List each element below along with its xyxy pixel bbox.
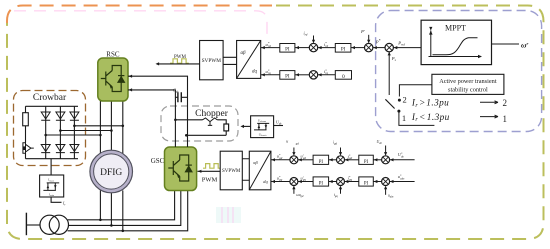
- resistor chopper: [224, 124, 229, 131]
- wire gsc row2 seg2: [298, 181, 313, 183]
- summing junction udc: [382, 156, 390, 164]
- PI box gsc q outer: [313, 177, 329, 186]
- node bus a: [99, 219, 102, 222]
- faint artifact blob: [216, 207, 241, 223]
- diode RSC antiparallel: [118, 77, 124, 83]
- pwm glyph gsc: [203, 164, 221, 169]
- svg-text:i*gq: i*gq: [348, 175, 353, 182]
- wire crowbar output a: [74, 125, 122, 127]
- diode D4: [41, 145, 50, 153]
- DFIG machine: [90, 150, 133, 193]
- wire chopper bottom: [186, 131, 226, 135]
- MPPT box: [421, 20, 491, 64]
- svg-text:i*rq: i*rq: [324, 68, 329, 75]
- svg-text:Cdc: Cdc: [173, 88, 179, 94]
- node crowbar c1: [44, 134, 47, 137]
- svg-text:Pref: Pref: [397, 41, 406, 47]
- svg-text:2: 2: [503, 98, 508, 108]
- diode D3: [70, 112, 79, 120]
- wire gsc row2 seg4: [344, 181, 359, 183]
- diode D1: [41, 112, 50, 120]
- wire gsc row1 seg5: [373, 159, 382, 161]
- svg-text:SVPWM: SVPWM: [222, 169, 241, 174]
- node chopper bottom: [185, 134, 188, 137]
- wire rsc row2 seg1: [261, 74, 280, 76]
- thyristor crowbar switch: [23, 143, 34, 154]
- MPPT axes: [429, 31, 480, 57]
- svg-text:uabc: uabc: [388, 194, 394, 199]
- wire svpwm-dq links gsc: [242, 159, 249, 181]
- svg-text:Crowbar: Crowbar: [33, 93, 67, 103]
- svg-text:PI: PI: [364, 160, 369, 165]
- svg-text:dq: dq: [252, 70, 258, 75]
- wire gsc gate: [198, 170, 221, 172]
- wire Pref: [393, 47, 421, 49]
- dq to alphabeta box rsc: [237, 41, 261, 79]
- svg-text:Ps: Ps: [391, 56, 397, 62]
- wire gsc row2 seg5: [373, 181, 382, 183]
- orange dashed border top-left: [7, 6, 272, 24]
- svg-text:0: 0: [342, 74, 345, 80]
- svg-text:ird: ird: [304, 31, 308, 37]
- IGBT RSC: [101, 71, 112, 87]
- svg-text:PI: PI: [319, 160, 324, 165]
- diode D5: [56, 145, 65, 153]
- zero reference box: [335, 71, 351, 80]
- summing junction igq: [337, 178, 345, 186]
- capacitor Cdc plates: [178, 92, 181, 102]
- PI box rsc d outer: [280, 44, 295, 53]
- wire stator bus a: [68, 191, 175, 220]
- chopper dashed border: [161, 106, 238, 141]
- IGBT GSC: [168, 160, 179, 176]
- diode D6: [70, 145, 79, 153]
- svg-text:GSC: GSC: [151, 157, 165, 165]
- wire grid lead: [26, 224, 40, 226]
- svg-text:P*: P*: [375, 39, 381, 44]
- summing junction Pref: [385, 43, 393, 51]
- pwm glyph rsc: [170, 59, 189, 63]
- hysteresis glyph crowbar: [43, 183, 59, 191]
- crowbar dashed border: [14, 91, 86, 166]
- svg-text:αβ: αβ: [240, 51, 246, 56]
- PI box gsc d inner: [359, 155, 374, 164]
- svg-text:u*rq: u*rq: [266, 68, 272, 75]
- svg-text:PI: PI: [285, 75, 290, 80]
- wire rsc gate: [159, 63, 200, 65]
- svg-text:Chopper: Chopper: [195, 109, 229, 119]
- node crowbar a1: [73, 125, 76, 128]
- summing junction rsc irq: [309, 71, 317, 79]
- wire DC rail minus: [128, 90, 175, 147]
- wire wLigd input: [293, 188, 295, 194]
- svg-text:i*rd: i*rd: [324, 41, 329, 48]
- PI box gsc q inner: [359, 177, 374, 186]
- svg-text:ωugd: ωugd: [296, 193, 304, 198]
- wire svpwm-dq links rsc: [223, 57, 237, 64]
- wire rsc row2 seg2: [295, 74, 310, 76]
- crowbar top rail: [26, 105, 79, 107]
- PI box gsc d outer: [313, 155, 329, 164]
- wire crowbar left branch: [25, 106, 27, 158]
- svg-text:ωr: ωr: [521, 41, 528, 50]
- svg-text:Udc: Udc: [377, 140, 383, 145]
- svg-text:U*dc: U*dc: [398, 152, 405, 159]
- MPPT curve: [433, 38, 478, 55]
- chopper IGBT: [203, 118, 218, 125]
- capacitor Cdc leads: [175, 96, 187, 98]
- pink dashed inner border: [14, 11, 267, 40]
- svg-text:u*rd: u*rd: [266, 41, 272, 48]
- svg-text:Active power transient: Active power transient: [439, 78, 497, 85]
- wire u*abc ref: [389, 181, 414, 183]
- node rotor a: [122, 125, 125, 128]
- switch arm: [385, 99, 394, 108]
- wire chopper top: [175, 120, 226, 124]
- wire gsc row2 seg3: [329, 181, 337, 183]
- converter RSC: [98, 58, 128, 101]
- svg-text:PI: PI: [319, 182, 324, 187]
- grid bar: [25, 213, 27, 236]
- svg-text:stability control: stability control: [448, 86, 488, 93]
- svg-text:1: 1: [503, 114, 508, 124]
- svg-text:2: 2: [403, 95, 407, 105]
- wire stator bus b: [69, 191, 181, 226]
- svg-text:igq: igq: [334, 193, 339, 198]
- arrow DC plus into RSC: [129, 75, 133, 78]
- svg-text:SVPWM: SVPWM: [202, 58, 222, 64]
- SVPWM box gsc: [220, 151, 242, 190]
- summing junction rsc ird: [309, 43, 317, 51]
- dq to alphabeta box gsc: [249, 151, 271, 190]
- node switch 1: [397, 110, 400, 113]
- svg-text:MPPT: MPPT: [445, 24, 466, 33]
- wire Udc ref: [389, 159, 414, 161]
- svg-text:u*gq: u*gq: [277, 175, 283, 182]
- wire gsc row1 seg2: [298, 159, 313, 161]
- svg-text:PI: PI: [364, 182, 369, 187]
- node crowbar b1: [59, 129, 62, 132]
- svg-text:gd: gd: [296, 141, 300, 145]
- wire P prime input: [368, 35, 370, 42]
- wire switch 1 out: [399, 113, 435, 126]
- wire ugd input: [293, 148, 295, 154]
- svg-text:Ir<1.3pu: Ir<1.3pu: [411, 113, 450, 123]
- wire crowbar trigger: [50, 159, 52, 175]
- svg-text:Ir: Ir: [62, 201, 66, 207]
- summing junction ugq ff: [290, 178, 298, 186]
- wire trigger output: [51, 197, 61, 202]
- wire crowbar leg 3: [73, 106, 75, 158]
- wire DFIG rotor leads: [100, 101, 122, 154]
- wire rsc row1 seg2: [295, 47, 310, 49]
- wire stability to switch: [399, 85, 432, 97]
- wire rsc row1 seg1: [261, 47, 280, 49]
- wire Udc sense: [274, 125, 283, 127]
- wire rsc row2 seg3: [318, 74, 336, 76]
- wire omega input: [492, 43, 520, 45]
- svg-text:Udc: Udc: [276, 119, 282, 125]
- diode GSC antiparallel: [186, 166, 192, 172]
- wire chopper gate: [244, 125, 251, 127]
- PI box rsc q: [280, 71, 295, 80]
- wire gsc row1 seg4: [344, 159, 359, 161]
- wire crowbar output c: [46, 134, 101, 136]
- crowbar bottom rail: [26, 158, 79, 160]
- svg-text:i*gd: i*gd: [348, 153, 353, 160]
- wire stator bus c: [68, 191, 188, 231]
- hysteresis glyph chopper: [254, 123, 269, 129]
- summing junction P prime: [365, 43, 373, 51]
- summing junction igd: [337, 156, 345, 164]
- svg-text:PI: PI: [285, 47, 290, 52]
- wire DC rail plus: [128, 76, 188, 147]
- svg-text:Ir>1.3pu: Ir>1.3pu: [411, 99, 449, 109]
- svg-text:P′: P′: [360, 29, 366, 34]
- wire rsc row1 seg5: [373, 47, 386, 49]
- node rotor c: [99, 134, 102, 137]
- wire udc input: [385, 146, 387, 154]
- wire crowbar output b: [60, 130, 111, 132]
- svg-text:PI: PI: [341, 47, 346, 52]
- svg-text:PWM: PWM: [202, 177, 218, 184]
- chopper hysteresis control box: [251, 116, 274, 138]
- crowbar trigger comparator box: [40, 175, 64, 197]
- wire gsc row2 seg1: [271, 181, 290, 183]
- wire crowbar leg 1: [45, 106, 47, 158]
- svg-text:1: 1: [402, 113, 406, 123]
- wire rsc row1 seg4: [351, 47, 365, 49]
- wire igq input: [340, 188, 342, 194]
- summing junction uabc: [382, 178, 390, 186]
- node bus b: [110, 224, 113, 227]
- resistor Rcb: [23, 113, 29, 126]
- transformer T1: [40, 215, 59, 234]
- svg-text:igd: igd: [333, 141, 338, 146]
- node chopper top: [174, 119, 177, 122]
- PI box rsc d inner: [335, 44, 351, 53]
- converter GSC: [165, 147, 197, 191]
- arrow DC minus into RSC: [129, 88, 133, 91]
- active power transient stability control box: [432, 74, 504, 94]
- svg-text:u*abc: u*abc: [398, 174, 405, 181]
- wire DFIG stator leads: [100, 191, 122, 231]
- wire gsc row1 seg3: [329, 159, 337, 161]
- wire Ps: [388, 52, 390, 95]
- svg-text:u*gd: u*gd: [277, 153, 283, 160]
- node switch 2: [398, 99, 401, 102]
- wire igd input: [340, 148, 342, 154]
- wire crowbar leg 2: [59, 106, 61, 158]
- svg-text:u: u: [286, 139, 288, 144]
- summing junction ugd ff: [290, 156, 298, 164]
- wire ird input: [313, 36, 315, 42]
- wire rsc row1 seg3: [318, 47, 336, 49]
- SVPWM box rsc: [200, 41, 224, 80]
- wire uabc input: [385, 188, 387, 195]
- wire gsc row1 seg1: [271, 159, 290, 161]
- svg-text:DFIG: DFIG: [100, 168, 122, 178]
- node rotor b: [110, 129, 113, 132]
- node bus c: [122, 230, 125, 233]
- blue dashed MPPT region border: [376, 11, 542, 132]
- diode D2: [56, 112, 65, 120]
